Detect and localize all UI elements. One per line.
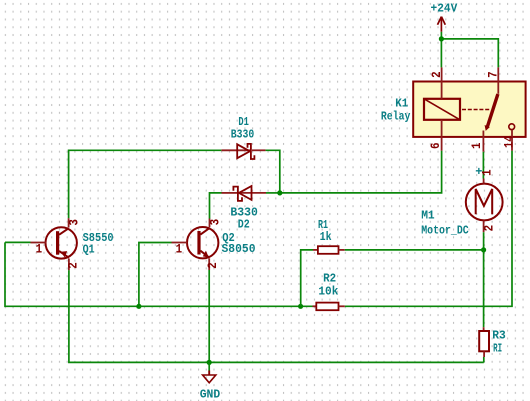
junction at +24V node [439, 36, 444, 41]
wire Q2 emitter down [208, 270, 210, 362]
junction diodes/relay [277, 190, 282, 195]
svg-text:10k: 10k [318, 285, 338, 299]
svg-text:D2: D2 [238, 217, 250, 231]
svg-text:6: 6 [428, 142, 443, 149]
switch blade [487, 94, 498, 127]
junction Q2 base rail [136, 304, 141, 309]
wire from +24V down to relay pin 2 [440, 32, 442, 68]
dashed actuator line [462, 109, 491, 111]
left rail down [5, 242, 139, 306]
wire relay pin1 to motor [482, 152, 484, 179]
resistor R1 [301, 246, 484, 306]
svg-text:2: 2 [482, 225, 497, 232]
power symbol +24V [438, 17, 446, 32]
svg-text:+24V: +24V [431, 2, 459, 16]
gnd stub [208, 362, 210, 370]
svg-text:K1: K1 [395, 96, 408, 110]
svg-text:2: 2 [66, 262, 81, 269]
wire Q2 base branch [139, 243, 172, 307]
wire junction down to R3 [483, 250, 485, 327]
svg-text:3: 3 [66, 219, 81, 226]
wire relay pin6 down and left to diode junction [280, 151, 442, 193]
ground symbol [203, 371, 216, 383]
wire D1 row from Q1 collector riser [69, 150, 222, 218]
resistor R2 [313, 303, 345, 311]
wire motor bottom to junction [483, 232, 485, 250]
svg-text:1k: 1k [320, 230, 332, 244]
diode D1 [221, 144, 265, 159]
svg-text:1: 1 [176, 242, 183, 257]
coil rectangle [424, 99, 460, 120]
svg-text:1: 1 [480, 169, 495, 176]
svg-text:S8050: S8050 [222, 242, 256, 256]
coil pin lines inside body [441, 82, 443, 99]
svg-text:Motor_DC: Motor_DC [421, 223, 469, 237]
motor M1 [466, 179, 503, 233]
svg-text:RI: RI [493, 341, 502, 355]
resistor R3 [479, 327, 489, 362]
svg-text:GND: GND [200, 387, 221, 401]
wire D2 left to Q2 collector riser [210, 193, 222, 219]
junction GND [207, 360, 212, 365]
svg-text:B330: B330 [231, 128, 255, 142]
wire D2 right to junction [266, 192, 280, 194]
relay K1 body [413, 82, 525, 137]
wire relay pin14 down to bottom bus [345, 151, 512, 306]
svg-text:1: 1 [36, 242, 43, 257]
blade pin line inside [497, 82, 499, 94]
svg-text:M1: M1 [421, 208, 435, 222]
svg-text:2: 2 [205, 262, 220, 269]
relay pin stubs outside [442, 67, 512, 151]
svg-text:1: 1 [469, 142, 484, 149]
svg-text:2: 2 [429, 71, 444, 78]
transistor Q1 S8550 [31, 218, 77, 270]
svg-text:Q1: Q1 [83, 242, 95, 256]
NO contact circle pin 14 [509, 124, 515, 130]
junction motor/R1 [481, 247, 486, 252]
svg-text:14: 14 [501, 135, 516, 148]
svg-text:R2: R2 [323, 272, 336, 286]
svg-text:Relay: Relay [381, 110, 411, 124]
transistor Q2 S8050 [172, 219, 219, 271]
wire Q1 base from left rail [5, 241, 31, 243]
wire D1 right down to D2 junction [266, 150, 280, 193]
junction R1/R2 [298, 304, 303, 309]
svg-text:R3: R3 [492, 328, 506, 342]
bottom bias bus [139, 305, 313, 307]
wire Q1 emitter down to bottom rail [69, 270, 484, 362]
wire from junction right and down to relay pin 7 [441, 39, 498, 68]
svg-text:7: 7 [486, 71, 501, 78]
diode D2 [222, 186, 267, 201]
svg-text:3: 3 [207, 219, 222, 226]
